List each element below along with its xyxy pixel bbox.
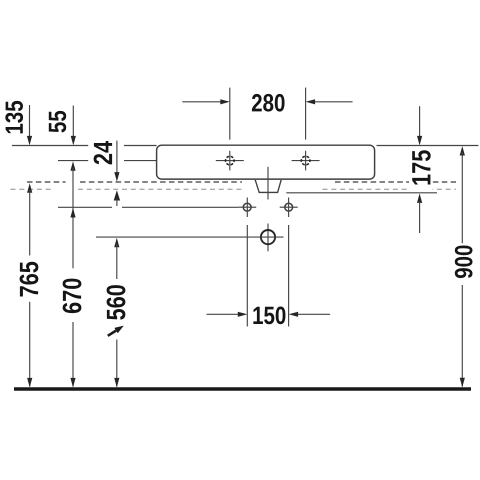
- dimension 900: [460, 146, 465, 156]
- rim top extension line left: [12, 145, 157, 147]
- drain direction arrow: [108, 331, 116, 336]
- washbasin outline: [157, 145, 375, 179]
- drain trapezoid: [255, 180, 281, 193]
- dimension 150: [207, 198, 331, 327]
- floor line: [14, 387, 471, 390]
- dimension 55: [72, 106, 74, 137]
- dimension 135: [29, 105, 31, 137]
- siphon hole: [253, 230, 284, 244]
- dimension 175: [419, 106, 421, 136]
- faucet hole crosshair left: [216, 151, 244, 171]
- faucet hole crosshair right: [292, 151, 320, 171]
- wall mounting hole right: [280, 203, 298, 211]
- drain center line: [267, 167, 269, 252]
- dimension 280: [182, 88, 352, 140]
- upper dashed line: [27, 181, 66, 183]
- dimension 24: [116, 141, 118, 173]
- wall mounting hole left: [238, 203, 256, 211]
- right solid reference line: [286, 192, 437, 194]
- rim top extension line right: [377, 145, 479, 147]
- dimension 560: [114, 238, 119, 248]
- siphon extension line: [96, 236, 252, 238]
- dimension 765: [27, 183, 32, 193]
- mounting holes extension line: [58, 206, 238, 208]
- faucet level extension line: [58, 160, 157, 162]
- lower dashed line: [11, 188, 54, 190]
- dimension 670: [70, 161, 75, 171]
